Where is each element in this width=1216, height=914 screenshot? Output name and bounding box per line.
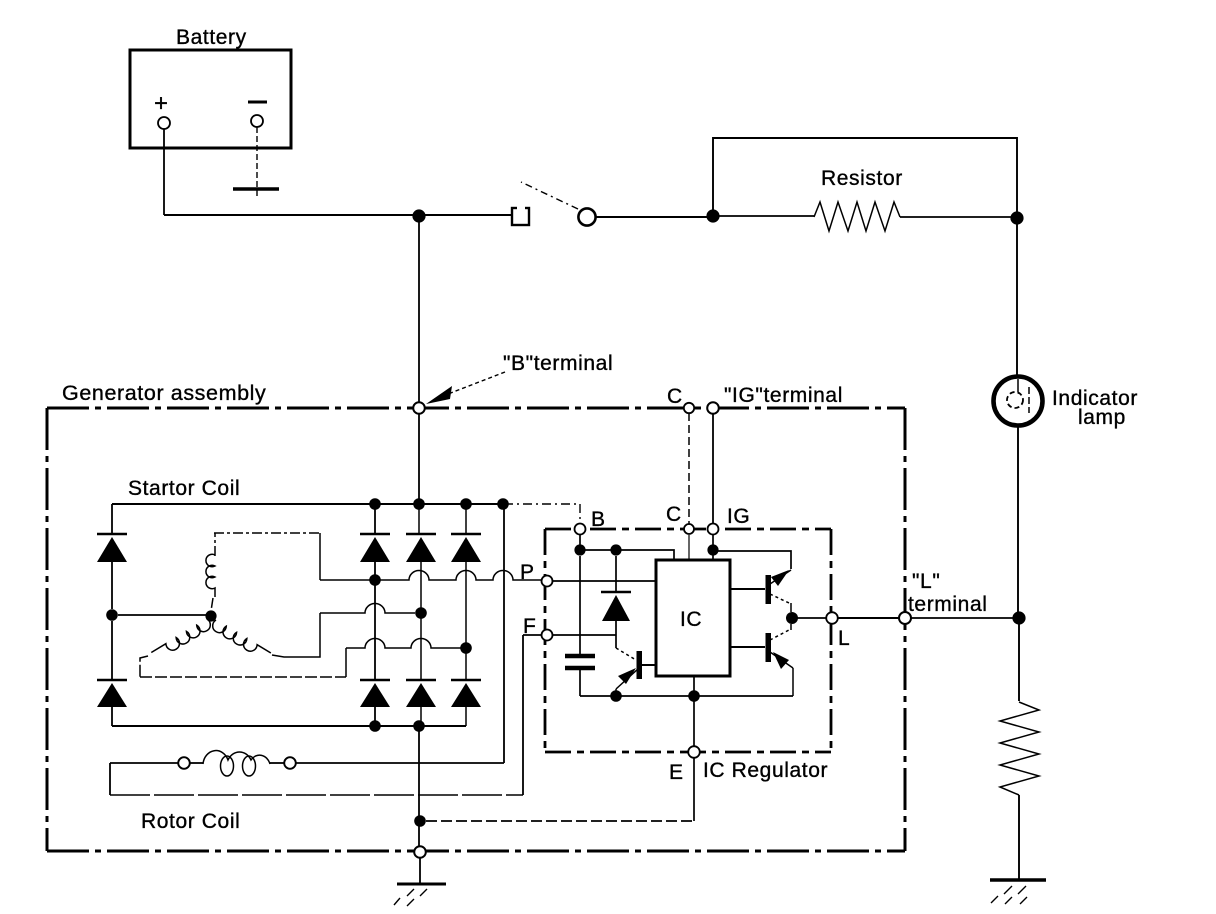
svg-text:F: F bbox=[523, 615, 536, 638]
wire main horizontal bbox=[164, 214, 513, 216]
node Q1 emitter bbox=[610, 690, 622, 702]
svg-text:Battery: Battery bbox=[176, 26, 247, 49]
wire top loop bbox=[713, 138, 1017, 216]
svg-text:Resistor: Resistor bbox=[821, 167, 903, 190]
svg-text:Rotor Coil: Rotor Coil bbox=[141, 810, 240, 833]
node IG internal bbox=[707, 544, 718, 555]
wire switch to junction bbox=[595, 216, 707, 218]
wire B drop inside generator bbox=[418, 414, 420, 504]
node bottom rail d2 bbox=[413, 720, 425, 732]
svg-text:IC: IC bbox=[680, 608, 702, 631]
svg-text:IG: IG bbox=[727, 505, 750, 528]
wire L reg to generator edge bbox=[838, 617, 899, 619]
svg-text:Startor Coil: Startor Coil bbox=[128, 477, 240, 500]
stator coil phase C lower-right bbox=[210, 620, 271, 662]
rectifier bottom rail bbox=[112, 725, 466, 727]
terminal P bbox=[542, 576, 553, 587]
rotor field winding L1 bbox=[110, 751, 296, 776]
diode D6 bottom col2 bbox=[406, 613, 436, 726]
wire E drop bbox=[693, 696, 695, 821]
wire battery minus down bbox=[256, 127, 258, 196]
svg-text:"B"terminal: "B"terminal bbox=[503, 352, 613, 375]
wire L out bbox=[911, 617, 1013, 619]
ground battery bbox=[233, 187, 279, 190]
ground generator bbox=[394, 884, 446, 906]
node top rail d2 bbox=[413, 498, 425, 510]
node bottom rail d1 bbox=[369, 720, 381, 732]
transistor Q3 bbox=[730, 624, 793, 696]
wire P internal bbox=[553, 580, 656, 582]
stator coil phase B lower-left bbox=[151, 619, 213, 661]
generator assembly box bbox=[47, 381, 905, 851]
wire rectifier minus drop bbox=[418, 726, 420, 847]
wire phase B routing bbox=[140, 656, 346, 677]
node IC ground bbox=[688, 690, 700, 702]
wire P sense line with hops bbox=[320, 571, 541, 581]
svg-text:+: + bbox=[154, 90, 169, 117]
label L terminal bbox=[908, 570, 988, 616]
stator coil phase A bbox=[206, 554, 215, 597]
diode D3 top col1 bbox=[360, 504, 390, 580]
wire IC bottom to ground rail bbox=[693, 676, 695, 696]
diode D8 bottom col3 bbox=[451, 648, 481, 726]
node neutral left bbox=[106, 609, 118, 621]
terminal L reg bbox=[826, 612, 838, 624]
diode D7 top col3 bbox=[451, 504, 481, 648]
wire C drop bbox=[688, 413, 690, 524]
stator wye center node bbox=[205, 610, 216, 621]
terminal E bbox=[688, 746, 700, 758]
wire E link bbox=[426, 820, 694, 822]
terminal ground generator bbox=[414, 846, 426, 858]
wire rotor right to top rail bbox=[296, 504, 504, 763]
terminal C reg bbox=[684, 524, 694, 534]
wire phase B to node with hops bbox=[346, 639, 461, 649]
diode D5 top col2 bbox=[406, 504, 436, 613]
terminal B bbox=[413, 402, 425, 414]
wire IG to Q2 bbox=[713, 551, 791, 569]
svg-text:E: E bbox=[669, 761, 684, 784]
rail to regulator B link bbox=[504, 504, 580, 523]
indicator lamp bbox=[994, 377, 1138, 430]
svg-text:lamp: lamp bbox=[1078, 406, 1126, 429]
wire C reg internal bbox=[688, 535, 690, 560]
node top rail d1 bbox=[369, 498, 381, 510]
svg-text:terminal: terminal bbox=[908, 593, 988, 616]
node zener top bbox=[610, 544, 621, 555]
node top rail rotor bbox=[497, 498, 509, 510]
wire L node down bbox=[1018, 618, 1020, 701]
terminal IG reg bbox=[708, 524, 719, 535]
rectifier top rail bbox=[112, 503, 504, 505]
node L internal bbox=[786, 612, 798, 624]
wire to ground bbox=[419, 858, 421, 884]
wire phase A routing bbox=[211, 533, 320, 611]
zener diode ZD bbox=[601, 556, 631, 635]
IC regulator box bbox=[545, 529, 831, 752]
node top rail d3 bbox=[460, 498, 472, 510]
wire phase C routing bbox=[272, 613, 320, 657]
node junction lamp-drop bbox=[1010, 211, 1023, 224]
wire lamp drop bbox=[1016, 218, 1018, 377]
node junction L bbox=[1012, 611, 1025, 624]
wire internal B rail bbox=[580, 550, 674, 560]
transistor Q2 bbox=[730, 570, 791, 612]
diode D2 bottom-left bbox=[97, 621, 127, 726]
label B terminal with arrow bbox=[426, 352, 613, 404]
wire IG drop inside generator bbox=[712, 413, 714, 524]
ground rail internal bbox=[580, 695, 793, 697]
terminal IG bbox=[707, 402, 719, 414]
op-amp U1 IC block bbox=[656, 560, 730, 676]
terminal B reg bbox=[575, 524, 586, 535]
svg-text:IC Regulator: IC Regulator bbox=[703, 759, 828, 782]
ground right bbox=[990, 880, 1046, 904]
node E junction bbox=[414, 815, 426, 827]
svg-text:C: C bbox=[666, 503, 682, 526]
wire neutral to center bbox=[118, 614, 206, 616]
node phase1 bbox=[369, 574, 381, 586]
terminal F bbox=[542, 630, 553, 641]
svg-text:B: B bbox=[591, 508, 606, 531]
node phase2 bbox=[415, 607, 427, 619]
wire L internal bbox=[792, 617, 826, 619]
node junction IG-drop bbox=[706, 209, 719, 222]
svg-text:P: P bbox=[520, 561, 535, 584]
wire F internal bbox=[553, 635, 616, 648]
svg-text:"IG"terminal: "IG"terminal bbox=[724, 384, 843, 407]
transistor Q1 bbox=[616, 648, 656, 696]
wire R2 to ground bbox=[1018, 795, 1020, 879]
battery bbox=[130, 26, 291, 148]
terminal L generator bbox=[899, 612, 911, 624]
wire battery plus down bbox=[163, 129, 165, 215]
svg-text:L: L bbox=[838, 627, 850, 650]
svg-text:Generator assembly: Generator assembly bbox=[62, 381, 266, 405]
capacitor C1 bbox=[565, 556, 595, 696]
node phase3 bbox=[460, 642, 472, 654]
wire phase C to node with hop bbox=[320, 604, 415, 614]
switch ignition bbox=[512, 182, 596, 226]
svg-text:"L": "L" bbox=[912, 570, 940, 593]
resistor R1 bbox=[713, 167, 1013, 231]
diode D1 top-left bbox=[97, 504, 127, 609]
wire B reg to internal rail bbox=[579, 535, 581, 550]
resistor R2 vertical bbox=[1000, 702, 1039, 795]
wire IG reg internal bbox=[712, 535, 714, 560]
node B internal bbox=[574, 544, 585, 555]
wire rotor left to F loop bbox=[109, 763, 111, 795]
node junction B-drop bbox=[412, 209, 425, 222]
wire B drop upper bbox=[418, 216, 420, 402]
diode D4 bottom col1 bbox=[360, 580, 390, 726]
svg-text:C: C bbox=[667, 385, 683, 408]
terminal C bbox=[684, 403, 694, 413]
wire lamp to L node bbox=[1017, 425, 1019, 612]
